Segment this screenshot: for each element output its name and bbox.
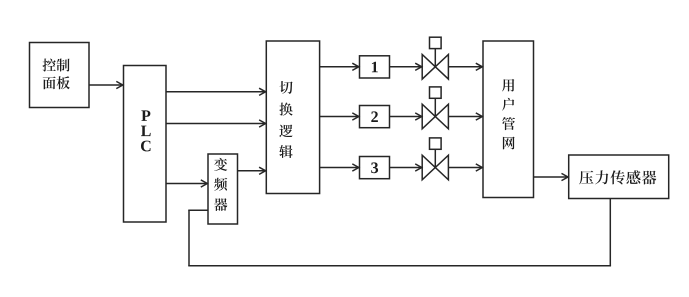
arrow: pump 1 to valve 1 [390,63,422,70]
text 器 [214,198,227,211]
text L [141,126,151,137]
text C [141,141,151,152]
text 用 [502,79,514,92]
box: pump 3 [360,157,390,179]
feedback wire: bottom horizontal [188,265,611,267]
box: pump 1 [360,56,390,78]
valve 2 with actuator [422,87,448,129]
arrow: control panel to PLC [89,81,123,88]
text 辑 [279,145,293,158]
box: user pipe network 用户管网 [483,41,534,198]
feedback wire: down from pressure sensor [609,199,611,266]
arrow: PLC to frequency converter [166,180,207,187]
digit 3 [371,162,378,173]
arrow: valve 3 to user pipe network [448,164,482,171]
arrow: switching logic to pump 2 [320,113,359,120]
arrow: valve 1 to user pipe network [448,63,482,70]
text 控制 [43,59,70,72]
arrow: PLC to switching logic (1) [166,88,266,95]
text 压力传感器 [579,170,656,184]
text 频 [214,178,227,191]
digit 1 [372,62,378,73]
arrow: PLC to switching logic (2) [166,120,266,127]
text 切 [279,81,292,94]
text 管 [502,117,515,130]
text 户 [502,98,514,111]
box: pump 2 [360,106,390,128]
arrow: pump 2 to valve 2 [390,113,422,120]
text 逻 [279,125,292,138]
text 面板 [43,76,70,89]
box: switching logic 切换逻辑 [266,41,319,194]
text P [141,110,150,121]
arrow: frequency converter to switching logic [238,167,266,174]
box: pressure sensor 压力传感器 [569,155,669,199]
digit 2 [371,111,378,122]
box: PLC [124,66,167,223]
arrow: pump 3 to valve 3 [390,164,422,171]
box: control panel 控制面板 [30,43,90,108]
text 变 [214,158,227,171]
arrow: user pipe network to pressure sensor [534,173,569,180]
feedback wire: up to frequency converter [188,210,190,265]
arrow: valve 2 to user pipe network [448,113,482,120]
feedback wire: into frequency converter [188,209,208,211]
valve 3 with actuator [422,138,448,180]
valve 1 with actuator [422,37,448,79]
box: frequency converter 变频器 [208,154,238,224]
text 换 [279,103,292,116]
arrow: switching logic to pump 3 [320,164,359,171]
arrow: switching logic to pump 1 [320,63,359,70]
text 网 [503,137,515,150]
